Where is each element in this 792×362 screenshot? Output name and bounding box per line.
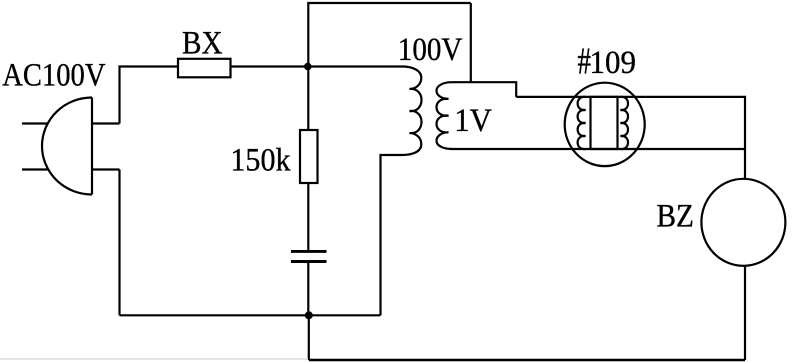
wire secondary step down [515, 82, 517, 97]
junction node A [304, 63, 312, 71]
fuse BX [178, 59, 231, 78]
wire fuse to node A [231, 65, 309, 67]
wire capacitor to node B [307, 263, 309, 316]
wire resistor to capacitor [307, 183, 309, 250]
capacitor C1 top plate [291, 250, 327, 253]
transformer T2 enclosure circle [565, 83, 645, 166]
buzzer BZ circle [701, 179, 785, 266]
junction node B [305, 311, 313, 319]
svg-text:1V: 1V [454, 103, 492, 139]
svg-text:AC100V: AC100V [2, 57, 106, 93]
wire lower horizontal (plug to primary return) [120, 314, 381, 316]
plug AC flat edge [91, 98, 93, 195]
transformer T1 secondary winding [437, 82, 518, 149]
plug AC body arc [42, 98, 92, 195]
svg-text:109: 109 [590, 45, 637, 81]
wire plug lower vertical [118, 170, 120, 316]
wire right vertical x=471 (top rail to secondary top lead) [470, 3, 472, 82]
wire top rail [307, 2, 471, 4]
svg-text:BX: BX [182, 25, 223, 61]
wire bottom rail secondary to T2 right side [451, 148, 746, 150]
svg-text:BZ: BZ [657, 198, 694, 234]
transformer T2 left winding [578, 97, 586, 149]
transformer T2 core rectangle [591, 97, 618, 149]
wire left vertical x=308 (top rail to resistor through node A) [307, 3, 309, 130]
wire plug up then right to fuse [120, 67, 179, 124]
plug prong upper [22, 122, 49, 124]
wire node B down to bottom rail [308, 315, 310, 360]
resistor 150k [300, 130, 318, 183]
wire top rail to transformer T2 and down to right [516, 97, 745, 179]
wire plug lower stub [91, 168, 120, 170]
svg-text:150k: 150k [230, 142, 291, 178]
wire bottom rail [309, 359, 745, 361]
transformer T2 right winding [621, 97, 629, 149]
scan artifact faint line [0, 358, 308, 360]
wire right vertical to buzzer [744, 266, 746, 360]
transformer T1 primary winding and return wire [308, 67, 421, 316]
capacitor C1 bottom plate [291, 260, 327, 263]
plug prong lower [22, 168, 49, 170]
wire plug upper stub [91, 122, 120, 124]
svg-text:100V: 100V [398, 32, 463, 68]
